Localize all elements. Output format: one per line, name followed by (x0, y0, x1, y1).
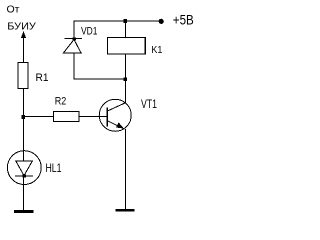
svg-text:VT1: VT1 (141, 97, 157, 111)
diode VD1 cathode bar (65, 38, 83, 40)
svg-text:R2: R2 (55, 96, 67, 108)
transistor VT1 circle (99, 99, 131, 131)
ground (left) (14, 210, 34, 213)
wire R1 to junction to HL1 (23, 89, 25, 162)
transistor VT1 base bar (106, 108, 108, 127)
svg-text:VD1: VD1 (81, 25, 98, 37)
top +5V rail wire (74, 20, 162, 22)
wire arrow to R1 (23, 36, 25, 63)
transistor VT1 emitter arrowhead (116, 122, 124, 128)
resistor R2 (54, 112, 80, 122)
node +5V terminal dot (159, 19, 164, 24)
node junction dot (R1/R2/HL1) (22, 115, 26, 119)
LED HL1 apex dot (23, 174, 26, 177)
svg-text:HL1: HL1 (46, 161, 62, 175)
wire HL1 to left ground (23, 176, 25, 210)
svg-text:R1: R1 (36, 72, 49, 84)
svg-text:От: От (7, 4, 20, 16)
arrow (input from БУИУ) (21, 31, 26, 38)
LED HL1 triangle (16, 161, 33, 176)
relay K1 (108, 38, 146, 55)
diode VD1 triangle (64, 40, 82, 53)
wire junction to R2 (24, 116, 54, 118)
LED HL1 circle (7, 151, 41, 185)
ground (right) (116, 209, 135, 212)
diode VD1 apex dot (73, 37, 76, 40)
resistor R1 (18, 63, 28, 89)
wire collector up to junction (124, 79, 126, 103)
wire R2 to base of VT1 (79, 116, 107, 118)
svg-text:+5В: +5В (173, 13, 194, 28)
transistor VT1 emitter diagonal (108, 121, 125, 129)
LED HL1 cathode bar (15, 175, 33, 177)
wire VD1 bottom corner to junction (74, 53, 125, 79)
node junction dot (collector/VD1/K1) (124, 77, 128, 81)
wire emitter to right ground (124, 129, 126, 209)
svg-text:K1: K1 (151, 44, 162, 56)
wire K1 top to top rail (124, 21, 126, 38)
svg-text:БУИУ: БУИУ (7, 21, 36, 33)
transistor VT1 collector diagonal (108, 103, 126, 111)
wire junction up to K1 (124, 54, 126, 79)
wire top rail down to VD1 cathode (73, 21, 75, 39)
node junction dot on top rail (124, 19, 128, 23)
